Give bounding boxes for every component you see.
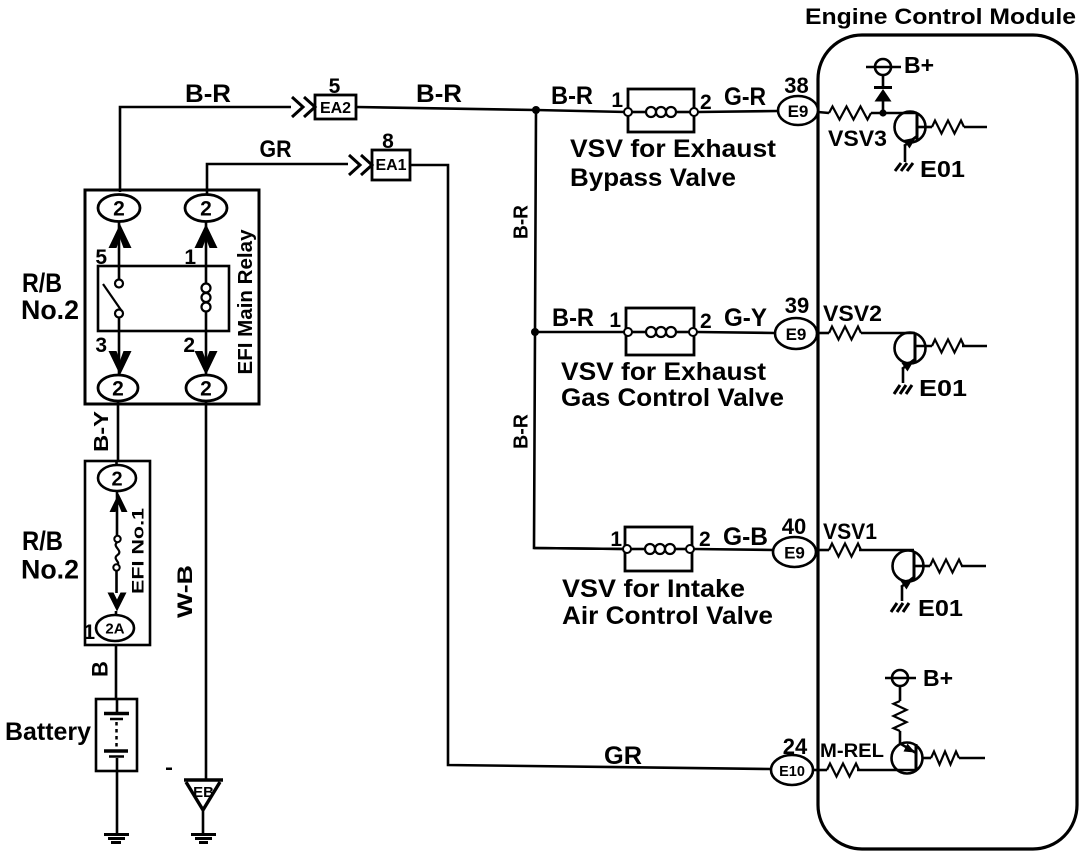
svg-text:Bypass Valve: Bypass Valve <box>570 164 736 192</box>
svg-text:G-Y: G-Y <box>724 304 767 332</box>
svg-text:E9: E9 <box>784 544 805 563</box>
svg-text:Battery: Battery <box>5 718 91 746</box>
svg-text:E01: E01 <box>918 595 963 621</box>
svg-text:No.2: No.2 <box>21 295 79 325</box>
svg-text:2: 2 <box>113 198 125 221</box>
svg-text:EA2: EA2 <box>320 100 351 117</box>
svg-text:VSV2: VSV2 <box>823 301 882 326</box>
svg-text:8: 8 <box>382 130 394 153</box>
svg-text:E9: E9 <box>788 102 809 121</box>
svg-text:R/B: R/B <box>22 268 62 298</box>
svg-text:24: 24 <box>783 734 808 759</box>
svg-text:EFI Main Relay: EFI Main Relay <box>235 229 257 375</box>
svg-text:E10: E10 <box>779 764 805 780</box>
svg-text:2A: 2A <box>105 621 124 638</box>
svg-text:Gas Control Valve: Gas Control Valve <box>561 384 784 412</box>
svg-text:B: B <box>88 661 113 677</box>
svg-text:3: 3 <box>95 334 107 357</box>
svg-text:VSV for Intake: VSV for Intake <box>562 575 745 603</box>
svg-text:1: 1 <box>611 89 623 112</box>
svg-text:E01: E01 <box>920 156 965 182</box>
svg-text:B-R: B-R <box>185 80 231 108</box>
svg-text:EA1: EA1 <box>375 157 406 174</box>
svg-text:M-REL: M-REL <box>820 741 884 762</box>
svg-text:5: 5 <box>329 75 341 98</box>
svg-text:G-R: G-R <box>724 83 766 111</box>
svg-text:G-B: G-B <box>723 523 768 551</box>
svg-text:B-R: B-R <box>551 82 593 110</box>
svg-text:B-R: B-R <box>416 80 462 108</box>
svg-text:E01: E01 <box>919 375 967 401</box>
svg-text:No.2: No.2 <box>21 555 79 585</box>
svg-text:Engine Control Module: Engine Control Module <box>805 4 1076 29</box>
svg-text:2: 2 <box>700 91 712 114</box>
svg-text:2: 2 <box>200 378 212 401</box>
svg-text:VSV for Exhaust: VSV for Exhaust <box>561 358 767 386</box>
svg-text:40: 40 <box>782 514 806 539</box>
svg-text:Air Control Valve: Air Control Valve <box>562 602 773 630</box>
svg-text:GR: GR <box>604 742 642 770</box>
svg-text:2: 2 <box>183 334 195 357</box>
svg-text:1: 1 <box>609 309 621 332</box>
svg-text:2: 2 <box>111 469 122 491</box>
svg-text:2: 2 <box>700 310 712 333</box>
svg-text:38: 38 <box>784 73 808 98</box>
svg-text:2: 2 <box>699 528 711 551</box>
svg-text:B-R: B-R <box>511 204 533 239</box>
svg-text:VSV1: VSV1 <box>823 519 877 544</box>
svg-text:B-R: B-R <box>552 304 594 332</box>
svg-text:2: 2 <box>200 198 212 221</box>
svg-text:VSV for Exhaust: VSV for Exhaust <box>570 135 777 163</box>
svg-text:B-Y: B-Y <box>91 410 113 452</box>
svg-text:2: 2 <box>112 378 124 401</box>
svg-text:1: 1 <box>83 621 95 644</box>
svg-text:EFI No.1: EFI No.1 <box>129 508 148 594</box>
svg-text:B+: B+ <box>904 52 934 78</box>
svg-text:B-R: B-R <box>511 413 533 449</box>
svg-text:39: 39 <box>785 293 809 318</box>
svg-text:B+: B+ <box>923 665 953 691</box>
svg-text:EB: EB <box>193 784 214 801</box>
svg-text:VSV3: VSV3 <box>828 126 887 151</box>
svg-text:R/B: R/B <box>22 526 63 556</box>
svg-text:GR: GR <box>260 136 292 163</box>
svg-text:E9: E9 <box>786 325 807 344</box>
svg-text:1: 1 <box>610 528 622 551</box>
svg-text:W-B: W-B <box>174 565 197 618</box>
